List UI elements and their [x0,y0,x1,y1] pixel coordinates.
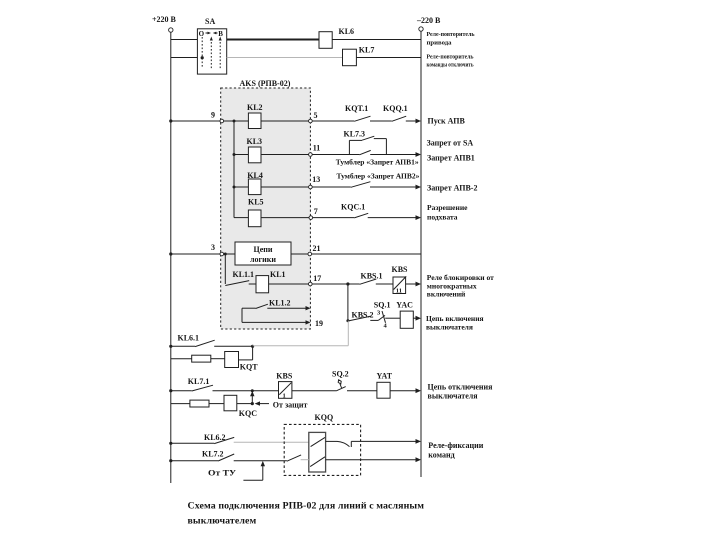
node 3 terminal [211,243,224,256]
svg-text:7: 7 [314,207,318,216]
label rele blokirovki [427,273,494,299]
wire bus to KL6.1 [169,345,195,348]
svg-text:включений: включений [427,290,466,299]
relay coil KL5 [248,198,264,227]
svg-text:Запрет от SA: Запрет от SA [427,138,474,147]
svg-text:KL7: KL7 [359,46,375,55]
svg-text:+220 В: +220 В [152,15,177,24]
relay coil KQC [224,395,257,418]
svg-text:5: 5 [314,111,318,120]
svg-text:KQC.1: KQC.1 [341,203,365,212]
relay coil KL1 [256,270,286,293]
node -220 V terminal [416,16,441,31]
svg-text:KQT.1: KQT.1 [345,104,368,113]
wire SQ.2 to YAT [347,390,377,392]
wire terminal 9 to KL2 [224,120,249,123]
svg-text:KL7.1: KL7.1 [188,377,210,386]
wire KL6 to right bus [332,39,421,41]
svg-text:17: 17 [313,274,321,283]
wire KL2 to terminal 5 [261,120,309,122]
contact tumbler Zapret APV1 [359,150,370,154]
svg-text:подхвата: подхвата [427,213,458,222]
svg-text:выключателем: выключателем [188,516,257,527]
svg-text:SQ.1: SQ.1 [374,300,391,309]
node 17 terminal [309,274,322,286]
svg-text:Пуск АПВ: Пуск АПВ [428,117,466,126]
label tsep otklyucheniya [428,382,494,400]
wire KQQ.1 to right bus [406,119,421,124]
wire terminal 11 to tumbler contact [312,154,359,156]
wire terminal 3 to logic box [224,253,235,256]
svg-text:От ТУ: От ТУ [208,469,236,478]
svg-text:KBS: KBS [392,265,409,274]
relay coil KL6 [319,27,354,48]
svg-text:KL2: KL2 [247,103,263,112]
contact KL7.1 [188,377,213,391]
wire node 19 row [242,320,311,324]
relay KQQ two-position core [309,432,326,472]
block logic circuits [235,242,291,265]
wire resistor to KQC [209,403,224,405]
node 9 terminal [211,111,224,123]
wire right bus [420,31,422,477]
wire KQC to junction with up arrow [237,391,255,405]
block KQQ dashed [284,413,360,476]
relay coil KBS with diagonal [392,265,409,295]
svg-text:Реле-повторитель: Реле-повторитель [427,31,476,38]
svg-text:KQQ.1: KQQ.1 [383,104,408,113]
svg-text:KL7.3: KL7.3 [344,130,366,139]
svg-text:Реле-фиксации: Реле-фиксации [428,441,483,450]
wire KL5 to terminal 7 [261,217,309,219]
svg-text:KL4: KL4 [247,171,263,180]
wire SA pole1 to KL6 (thick) [227,39,319,41]
label tsep vklyucheniya [426,314,484,332]
wire bus to KL7.1 [169,389,192,392]
svg-text:KL1.1: KL1.1 [233,270,255,279]
wire branch stub right [385,139,387,155]
svg-text:KL1.2: KL1.2 [269,299,291,308]
wire KQQ row2 to right bus [326,457,421,462]
svg-text:KQQ: KQQ [315,413,334,422]
svg-text:KL7.2: KL7.2 [202,450,224,459]
node 5 terminal [309,111,318,123]
svg-text:команд: команд [428,450,454,459]
contact KL1.2 [256,299,291,309]
wire bus to KL6.2 [169,442,214,445]
relay coil KQT [225,352,259,372]
svg-text:KL1: KL1 [270,270,286,279]
relay coil KL3 [247,137,263,163]
wire KQC.1 to right bus [368,215,421,220]
wire KBS lower to SQ.2 [292,390,336,392]
svg-text:KL5: KL5 [248,198,264,207]
svg-text:KL3: KL3 [247,137,263,146]
svg-text:Тумблер «Запрет АПВ1»: Тумблер «Запрет АПВ1» [336,158,419,167]
wire YAT to right bus [390,388,421,393]
wire KBS.2 to SQ.1 [370,319,378,321]
svg-text:Тумблер «Запрет АПВ2»: Тумблер «Запрет АПВ2» [337,172,420,181]
block AKS (RPV-02) [221,79,311,329]
svg-text:Реле-повторитель: Реле-повторитель [427,54,474,61]
wire KL6.1 faded to KBS.2 branch [253,321,349,346]
node +220 V terminal [152,15,177,32]
svg-text:11: 11 [396,288,402,295]
wire YAC to right bus [413,316,421,321]
wire KQT.1 to KQQ.1 [370,120,392,122]
wire inner bus to KL3 [233,153,249,156]
wire KL1.1 to KL1 [249,283,256,285]
svg-text:выключателя: выключателя [426,322,473,331]
wire tumbler to right bus [370,185,421,190]
svg-text:KQC: KQC [239,409,257,418]
contact KQC.1 [341,203,368,218]
svg-text:KBS.1: KBS.1 [361,272,383,281]
wire resistor to KQT [211,358,225,360]
svg-text:–220 В: –220 В [416,16,441,25]
svg-text:11: 11 [313,144,321,153]
svg-text:19: 19 [315,319,323,328]
wire KQT up to KL6.1 row [239,346,253,360]
node Ot TU arrow [208,461,265,480]
wire inner bus to KL4 [233,186,249,189]
wire +220 bus to SA pole 2 [171,57,198,59]
svg-text:В: В [218,30,223,38]
contact KBS.1 [360,272,383,285]
resistor KQC row [190,400,209,407]
switch SA [197,17,226,74]
node 21 terminal [308,244,321,256]
wire KBS.1 junction down to KBS.2 [347,284,349,321]
wire bus to resistor KQT row [171,358,192,360]
relay coil KL4 [247,171,263,195]
wire KL1.2 row left [242,307,256,309]
svg-text:KQT: KQT [240,362,258,371]
svg-text:21: 21 [313,244,321,253]
svg-text:выключателя: выключателя [428,391,479,400]
wire terminal 13 to tumbler contact [312,186,351,188]
wire KL7.1 to KBS lower coil [213,389,279,392]
wire KL1.2 branch vertical [241,308,243,322]
svg-text:Разрешение: Разрешение [427,203,468,212]
wire KL3 to terminal 11 [261,154,309,156]
contact tumbler Zapret APV2 [351,182,371,188]
svg-text:Цепи: Цепи [254,245,273,254]
svg-text:Цепь отключения: Цепь отключения [428,382,494,391]
caption [188,501,425,527]
wire bus to resistor KQC row [171,403,190,405]
svg-text:3: 3 [211,243,215,252]
svg-text:KBS: KBS [276,371,293,380]
wire terminal 21 to right bus [312,253,421,255]
node 11 terminal [309,144,321,157]
svg-text:От защит: От защит [273,400,308,409]
wire node 3 branch down to KL1.1 [224,254,226,284]
contact KQQ row1 [326,441,352,447]
wire bus to terminal 3 [169,252,220,255]
label Razreshenie podkhvata [427,203,468,222]
svg-text:команды отключить: команды отключить [427,62,474,69]
svg-text:9: 9 [211,111,215,120]
wire KL1 to terminal 17 [269,283,309,285]
contact KL7.2 [202,450,234,461]
svg-text:KL6: KL6 [339,27,355,36]
wire bus to KL7.2 [169,459,218,462]
node 13 terminal [309,175,321,189]
label rele fiksatsii komand [428,441,483,460]
contact SQ.2 [332,369,349,391]
wire tumbler to right bus [370,152,421,157]
wire inner bus to KL5 [234,217,248,219]
svg-text:Запрет АПВ-2: Запрет АПВ-2 [427,184,477,193]
svg-text:привода: привода [427,40,453,47]
contact KQQ row2 input [287,455,309,461]
contact KL6.1 [178,333,215,346]
contact KBS.2 [346,311,373,323]
svg-text:AKS (РПВ-02): AKS (РПВ-02) [240,79,291,88]
svg-text:1: 1 [283,393,286,400]
wire KL6.2 faded to KQQ block [234,441,309,443]
contact KL1.1 [225,270,254,286]
wire KBS.1 to KBS coil [376,283,393,285]
coil YAC [396,300,413,328]
wire bus to terminal 9 [169,119,220,122]
wire branch stub left [348,140,350,154]
coil YAT [377,371,393,398]
svg-text:О: О [199,30,205,38]
contact KL7.3 [344,130,375,141]
svg-text:SQ.2: SQ.2 [332,369,349,378]
svg-text:13: 13 [312,175,320,184]
label relay-repeater of drive [427,31,476,47]
contact KQT.1 [345,104,371,121]
wire terminal 17 to KBS.1 [312,282,360,285]
wire KQQ row1 to right bus [351,439,421,444]
wire +220 bus to SA pole 1 [171,39,198,41]
wire branch KL7.3 right [374,138,387,140]
wire SQ.1 to YAC [385,317,400,319]
contact KL6.2 [204,433,234,444]
wire KBS to right bus [406,282,421,287]
wire left bus [170,32,172,483]
wire terminal 5 to KQT.1 [312,120,354,122]
wire KL6.1 to junction [214,345,254,348]
svg-text:KL6.1: KL6.1 [178,333,200,342]
svg-text:YAC: YAC [396,300,413,309]
relay coil KL2 [247,103,263,129]
wire logic box to terminal 21 [291,253,308,255]
svg-text:Схема подключения РПВ-02 для л: Схема подключения РПВ-02 для линий с мас… [188,501,425,512]
node Ot zashchit arrow [255,400,308,409]
relay coil KBS lower with diagonal [276,371,293,399]
contact KQQ.1 [383,104,408,121]
svg-text:логики: логики [250,255,276,264]
wire KL1.2 to block edge [267,306,310,310]
resistor KQT row [192,355,211,362]
svg-text:SA: SA [205,17,215,26]
wire inner bus [233,121,235,218]
contact SQ.1 [374,300,391,329]
wire branch KL7.3 left [349,139,362,141]
svg-text:Запрет АПВ1: Запрет АПВ1 [427,153,475,162]
wire KL7.2 to KQQ block [234,460,287,462]
relay coil KL7 [343,46,375,66]
wire SA pole2 to KL7 (faded) [227,57,343,59]
wire KL4 to terminal 13 [261,186,309,188]
svg-text:YAT: YAT [377,371,393,380]
label relay-repeater of trip command [427,54,474,69]
wire KL7 to right bus [356,57,421,59]
node 7 terminal [309,207,318,219]
wire terminal 7 to KQC.1 [313,217,355,219]
